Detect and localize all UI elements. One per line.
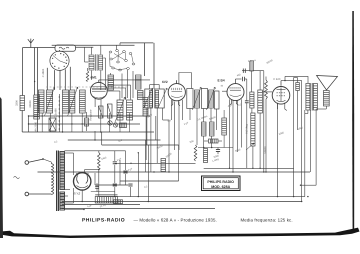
resistor R8 bbox=[258, 90, 263, 113]
wire V2 pins bbox=[171, 100, 180, 106]
wire HT verticals bbox=[119, 160, 121, 185]
svg-text:Media frequenza: 125 kc.: Media frequenza: 125 kc. bbox=[241, 217, 293, 222]
coil L9 bbox=[108, 75, 114, 90]
IF transformer T2 can bbox=[187, 89, 193, 109]
transformer secondary winding lower bbox=[60, 192, 65, 210]
coil L10 bbox=[136, 75, 142, 89]
coil L8 oscillator bbox=[127, 100, 133, 120]
padder capacitor C2 bbox=[99, 106, 104, 118]
wire bbox=[203, 136, 205, 148]
transformer core bbox=[56, 151, 58, 212]
wire right verticals bbox=[249, 146, 251, 168]
wire V1 plate to IFT1 bbox=[99, 79, 150, 81]
capacitor C18 bbox=[95, 185, 99, 187]
capacitor C11 bbox=[242, 77, 244, 81]
wire V3 input bbox=[222, 90, 227, 92]
wire bus y196.6 bbox=[99, 196, 305, 198]
wire bus row y140 bbox=[68, 139, 161, 141]
aerial transformer winding 1b bbox=[89, 63, 94, 70]
wire bbox=[34, 48, 36, 96]
resistor R13 zigzag bbox=[194, 145, 197, 161]
wire bus y168.3 bbox=[204, 167, 294, 169]
aerial transformer winding 2 bbox=[99, 55, 103, 70]
wire bus row y145 bbox=[102, 144, 179, 146]
wire V2 top cap bbox=[176, 80, 178, 83]
wire bbox=[98, 151, 100, 153]
gang link dashed bbox=[46, 86, 128, 88]
wire IFT2 leads bbox=[189, 109, 191, 121]
coil L6 bbox=[80, 90, 86, 113]
trimmer T2 bbox=[113, 123, 117, 127]
wire mid verticals bbox=[145, 140, 147, 172]
transformer secondary winding upper bbox=[60, 152, 65, 190]
wire bbox=[91, 191, 115, 193]
tube V3 EB4 detector bbox=[227, 84, 244, 101]
wire top bus 1b bbox=[120, 42, 153, 44]
power switch bbox=[29, 159, 43, 162]
resistor R10 zigzag grid bbox=[265, 80, 268, 99]
wire V1 pins bbox=[94, 98, 96, 107]
wire switch drops bbox=[46, 68, 48, 90]
svg-text:PHILIPS-RADIO: PHILIPS-RADIO bbox=[82, 218, 125, 224]
resistor R6 bbox=[210, 122, 215, 136]
resistor R7 bbox=[250, 92, 254, 108]
coil L4 variable bbox=[47, 90, 53, 113]
resistor R4 bbox=[85, 118, 89, 126]
box padding trimmer bbox=[49, 118, 56, 131]
antenna bbox=[30, 43, 32, 48]
wire IFT1 top bbox=[153, 43, 155, 89]
svg-text:6TX2: 6TX2 bbox=[74, 191, 81, 195]
coil L5 bbox=[63, 90, 69, 113]
wire verticals in cluster bbox=[28, 116, 30, 132]
wire bus row y116 bbox=[29, 115, 151, 117]
model label box PHILIPS RADIO MOD. 628A bbox=[202, 176, 241, 191]
page bottom edge shadow bbox=[0, 228, 360, 238]
wire bus y172 bbox=[38, 171, 311, 173]
filter choke bbox=[95, 194, 117, 196]
tube V4 output pentode bbox=[272, 87, 290, 105]
resistor R17 AVC bbox=[222, 118, 227, 135]
transformer primary winding bbox=[50, 162, 52, 164]
capacitor C14 bbox=[123, 170, 127, 172]
IF transformer T2 secondary bbox=[209, 90, 214, 108]
coil L7 oscillator bbox=[117, 100, 123, 120]
trimmer T1 bbox=[108, 121, 112, 125]
rectifier tube V5 6TX2 bbox=[74, 173, 91, 190]
wire V3 grid line down bbox=[246, 79, 248, 101]
coil L10c bbox=[143, 98, 148, 117]
output transformer secondary bbox=[313, 84, 317, 111]
tube V2 6V2 IF amplifier bbox=[168, 84, 185, 101]
capacitor C12 bbox=[113, 161, 117, 163]
svg-text:3300: 3300 bbox=[16, 100, 19, 106]
wire transformer taps bbox=[64, 152, 73, 154]
svg-text:6V2: 6V2 bbox=[162, 80, 168, 84]
wire bus row y132 bbox=[22, 131, 154, 133]
IF transformer T2 can 2 bbox=[202, 89, 208, 109]
wire V4 plate to output transformer bbox=[285, 76, 308, 83]
wire output transformer leads bbox=[304, 110, 306, 197]
IF transformer T2 can 3 bbox=[215, 91, 220, 109]
svg-text:MOD. 628A: MOD. 628A bbox=[211, 185, 230, 189]
IF transformer T1 secondary bbox=[155, 91, 159, 108]
resistor R15 horizontal bbox=[114, 200, 123, 204]
wire V1 grid stubs bbox=[107, 84, 130, 86]
wire speaker return bbox=[301, 184, 317, 186]
wire y70.7 bbox=[242, 70, 264, 72]
wire bus y201.5 bbox=[62, 201, 302, 203]
resistor R12 bbox=[161, 159, 166, 172]
wire bus y208.5 bbox=[62, 208, 215, 210]
coil L10b bbox=[138, 91, 144, 100]
wire antenna bus bbox=[23, 47, 55, 49]
svg-text:MA 2200: MA 2200 bbox=[34, 121, 37, 132]
page right edge shadow bbox=[352, 11, 354, 232]
wire bbox=[37, 48, 39, 133]
output transformer core bbox=[310, 83, 312, 111]
wire V4 pins bbox=[277, 103, 279, 197]
capacitor C10 bbox=[216, 149, 220, 151]
mains AC symbol bbox=[14, 177, 20, 179]
wire bus y185 bbox=[95, 184, 128, 186]
svg-text:6M1: 6M1 bbox=[91, 75, 97, 79]
capacitor C13 bbox=[113, 183, 117, 185]
trimmer C1 bbox=[58, 94, 60, 132]
wire right of V3 bbox=[251, 108, 253, 113]
wire rectifier bottom bbox=[81, 190, 83, 201]
svg-text:PHILIPS RADIO: PHILIPS RADIO bbox=[207, 180, 234, 184]
page left edge shadow bbox=[0, 97, 3, 238]
wire V3 top cap bbox=[235, 79, 237, 84]
svg-text:E B4: E B4 bbox=[218, 79, 225, 83]
svg-text:F 420: F 420 bbox=[274, 78, 281, 81]
IF transformer T2 primary bbox=[195, 90, 200, 108]
band switch S2 contact deck bbox=[109, 51, 112, 53]
wire IFT1 bottom leads bbox=[146, 108, 148, 145]
wire bus y177 bbox=[115, 176, 180, 178]
coil L11 bbox=[120, 123, 127, 128]
capacitor C16 bbox=[128, 183, 132, 185]
resistor R3 zigzag bbox=[86, 71, 88, 82]
wire speaker leads bbox=[325, 106, 327, 109]
wire bbox=[22, 48, 24, 96]
wire top bus 1 bbox=[52, 44, 135, 46]
wire bus y181 bbox=[120, 180, 179, 182]
wire rectifier top bbox=[84, 170, 86, 173]
wire bus y204.5 bbox=[62, 204, 140, 206]
coil L5b variable bbox=[70, 90, 75, 113]
band switch S1 bbox=[50, 51, 69, 70]
field coil resistor bbox=[296, 83, 300, 91]
wire bus row y124 bbox=[29, 123, 141, 125]
wire V2 plate loop bbox=[179, 73, 191, 89]
resistor R5 bbox=[202, 122, 207, 136]
tube V1 6M1 octode bbox=[90, 82, 107, 99]
padder capacitor C3 bbox=[108, 104, 113, 118]
IF transformer T1 primary bbox=[149, 91, 152, 108]
svg-text:C 4600: C 4600 bbox=[42, 68, 45, 77]
wire bbox=[116, 45, 118, 49]
capacitor C17 bbox=[242, 69, 244, 73]
wire V4 top cap bbox=[280, 81, 282, 86]
mains terminal 2 bbox=[25, 192, 29, 196]
potentiometer R9 volume bbox=[251, 113, 255, 146]
coil L12 bbox=[204, 149, 208, 163]
svg-text:30000: 30000 bbox=[29, 100, 32, 108]
resistor R14 horizontal bbox=[209, 139, 219, 143]
svg-text:Reazione: Reazione bbox=[89, 109, 92, 121]
input filter box bbox=[55, 45, 76, 51]
mains terminal 1 bbox=[25, 161, 29, 165]
voice coil bbox=[324, 91, 330, 107]
svg-text:50000: 50000 bbox=[264, 146, 267, 154]
svg-text:0,5 Meg: 0,5 Meg bbox=[246, 124, 249, 134]
wire mains return bbox=[29, 193, 52, 195]
wire top bus 2 bbox=[76, 46, 94, 48]
IF transformer T1 can bbox=[145, 89, 153, 108]
wire aerial transformer leads bbox=[90, 47, 92, 54]
resistor R11 zigzag bbox=[98, 153, 101, 170]
resistor R16 bbox=[250, 61, 254, 71]
output transformer primary bbox=[306, 84, 310, 111]
wire V1 top cap bbox=[98, 80, 100, 83]
aerial transformer core bbox=[95, 54, 97, 70]
capacitor C15 bbox=[245, 100, 249, 102]
svg-text:— Modello « 628 A » - Produ: — Modello « 628 A » - Produzione 1935. bbox=[134, 217, 217, 222]
wire V3 pins bbox=[230, 100, 238, 105]
speaker cone bbox=[317, 76, 338, 91]
aerial transformer winding 1a bbox=[89, 55, 94, 62]
wire y163.3 bbox=[115, 162, 196, 164]
IF transformer T1 can 2 bbox=[155, 89, 164, 108]
